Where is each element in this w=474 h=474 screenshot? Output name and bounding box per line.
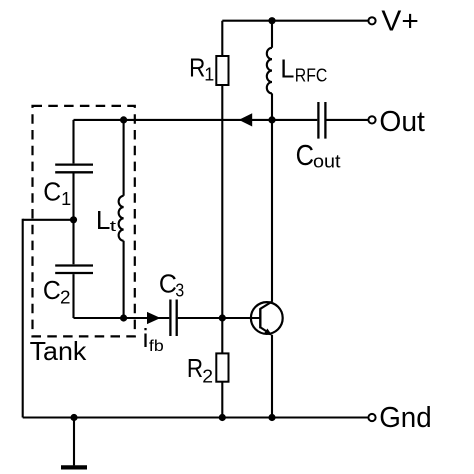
capacitor Cout plates [318, 102, 325, 139]
wire output feedback line left [74, 119, 318, 121]
junction dot feedback rail [268, 116, 275, 123]
svg-text:C: C [159, 268, 177, 298]
wire C3 to transistor base [178, 317, 260, 319]
junction dot C1 C2 midpoint [70, 216, 77, 223]
svg-text:2: 2 [202, 366, 213, 386]
wire left vertical rail [22, 219, 24, 418]
svg-text:R: R [189, 52, 205, 82]
svg-text:C: C [296, 140, 314, 172]
dashed tank box [33, 106, 135, 337]
svg-text:C: C [43, 177, 61, 207]
junction dot ground left [70, 414, 77, 421]
transistor Q1 circle [251, 302, 283, 334]
arrow i_fb pointing right [147, 312, 161, 324]
wire Lt branch vertical [123, 120, 125, 318]
wire top rail V+ [222, 20, 367, 22]
wire C1-C2 midpoint to left rail [23, 219, 74, 221]
svg-text:Gnd: Gnd [379, 402, 432, 434]
svg-text:i: i [143, 323, 149, 353]
svg-text:L: L [96, 205, 111, 235]
capacitor C3 plates [170, 300, 176, 337]
inductor Lt coil [119, 196, 124, 241]
svg-text:C: C [43, 275, 61, 305]
resistor R1 [216, 56, 228, 85]
svg-text:RFC: RFC [295, 65, 328, 85]
svg-text:1: 1 [204, 64, 214, 84]
wire R1 R2 branch vertical [221, 21, 223, 418]
terminal V+ circle [368, 17, 375, 24]
svg-text:Tank: Tank [30, 336, 88, 366]
capacitor C2 plates [55, 266, 93, 274]
junction dot base node [219, 314, 226, 321]
wire bottom ground rail [23, 416, 368, 418]
wire tank bottom to C3 [74, 317, 170, 319]
inductor L_RFC coil [267, 48, 272, 94]
svg-text:R: R [187, 353, 203, 383]
transistor Q1 collector diagonal [260, 302, 272, 309]
svg-text:1: 1 [61, 189, 71, 209]
resistor R2 [216, 353, 228, 381]
ground symbol [61, 418, 87, 468]
transistor Q1 emitter arrowhead [264, 329, 272, 336]
junction dot tank bottom [120, 314, 127, 321]
svg-text:Out: Out [379, 106, 425, 138]
terminal Gnd circle [368, 414, 375, 421]
wire output line right of Cout [326, 119, 368, 121]
junction dot top rail [268, 17, 275, 24]
svg-text:t: t [110, 218, 118, 235]
svg-text:out: out [313, 152, 341, 172]
svg-text:3: 3 [175, 281, 184, 301]
svg-text:2: 2 [60, 288, 71, 308]
capacitor C1 plates [55, 165, 93, 173]
transistor Q1 emitter diagonal [260, 327, 270, 334]
transistor Q1 base bar [259, 308, 261, 328]
junction dot R2 bottom [219, 414, 226, 421]
wire LRFC collector emitter branch vertical [271, 21, 273, 418]
junction dot emitter bottom [268, 414, 275, 421]
junction dot tank top [120, 116, 127, 123]
wire C1 C2 branch vertical [72, 120, 74, 318]
arrow feedback pointing left [239, 113, 252, 126]
svg-text:V+: V+ [381, 6, 418, 38]
svg-text:fb: fb [149, 338, 164, 355]
svg-text:L: L [280, 53, 294, 83]
terminal Out circle [368, 116, 375, 123]
